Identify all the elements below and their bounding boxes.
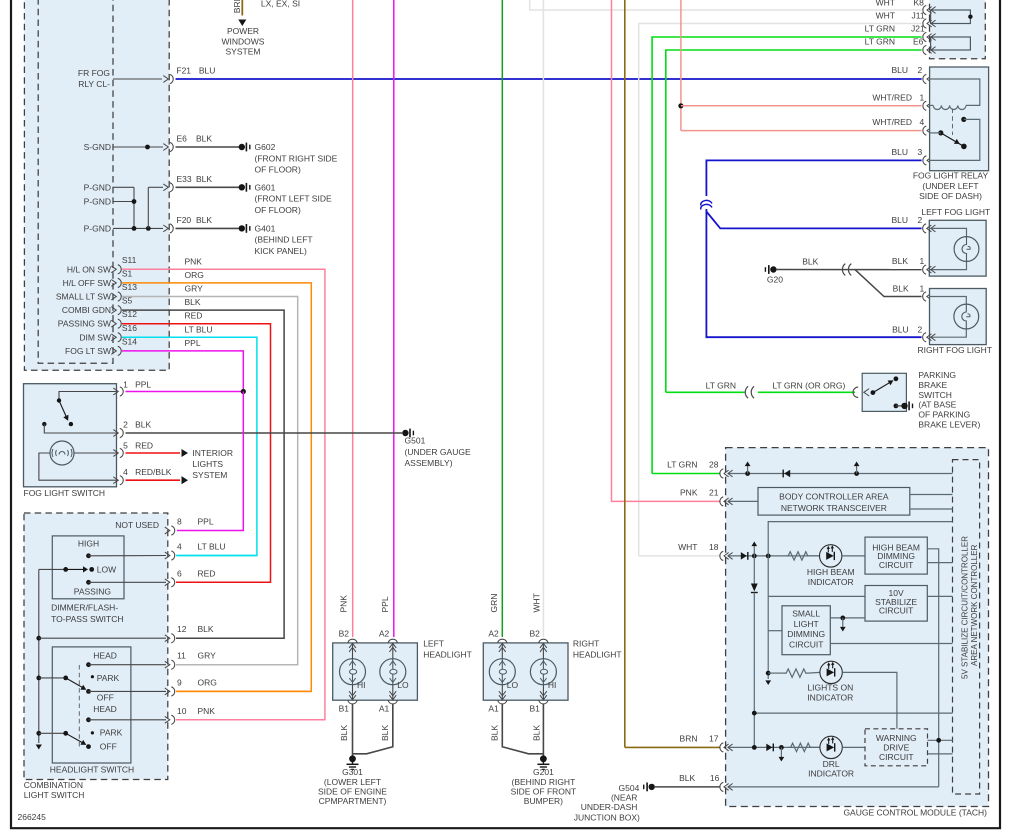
svg-text:DIM SW: DIM SW	[79, 332, 111, 342]
wire PASSING to pin 6	[89, 581, 167, 583]
svg-text:HEADLIGHT: HEADLIGHT	[573, 650, 622, 660]
junction dot bus lower section	[36, 731, 41, 736]
wire pin 1 PPL	[126, 391, 244, 393]
junction block dashed box	[930, 0, 986, 59]
wire BLK branch to right fog light	[855, 270, 922, 297]
svg-text:BLK: BLK	[893, 283, 909, 293]
svg-text:1: 1	[123, 380, 128, 390]
svg-text:RIGHT FOG LIGHT: RIGHT FOG LIGHT	[918, 345, 992, 355]
connector pin S14	[111, 346, 121, 355]
wire vertical P-GND bus 1	[133, 187, 135, 228]
resistor high beam indicator	[786, 552, 810, 560]
connector pin K8	[923, 5, 936, 14]
svg-text:RED/BLK: RED/BLK	[135, 467, 172, 477]
switch contact dot fog switch right	[69, 422, 73, 426]
svg-text:INDICATOR: INDICATOR	[808, 577, 854, 587]
wire BRN to power windows system	[241, 0, 243, 16]
svg-text:BUMPER): BUMPER)	[524, 796, 563, 806]
svg-text:18: 18	[709, 542, 719, 552]
page background fill of under-dash module	[24, 0, 169, 370]
svg-text:G401: G401	[255, 223, 276, 233]
wire BLU branch to left fog light	[706, 212, 921, 229]
svg-text:S1: S1	[122, 268, 133, 278]
wire LT GRN to pin 28	[652, 473, 720, 475]
svg-text:PNK: PNK	[198, 706, 216, 716]
svg-text:SIDE OF DASH): SIDE OF DASH)	[919, 191, 982, 201]
arrow down from small box output	[842, 618, 844, 627]
svg-text:PARKING: PARKING	[918, 370, 956, 380]
svg-text:AREA NETWORK CONTROLLER: AREA NETWORK CONTROLLER	[970, 544, 979, 666]
svg-text:OFF: OFF	[100, 742, 117, 752]
parking brake switch arm	[873, 381, 892, 393]
junction dot lights on row	[766, 671, 771, 676]
junction dot pin 17 second	[779, 745, 784, 750]
parking brake contact dot	[871, 390, 876, 395]
svg-text:LT GRN: LT GRN	[865, 24, 895, 34]
svg-text:CIRCUIT: CIRCUIT	[879, 560, 913, 570]
svg-text:S-GND: S-GND	[84, 142, 111, 152]
svg-text:LO: LO	[507, 680, 519, 690]
svg-text:B1: B1	[529, 704, 540, 714]
svg-text:LIGHTS: LIGHTS	[192, 459, 223, 469]
svg-text:GRN: GRN	[489, 594, 499, 613]
junction dot small box output	[840, 616, 845, 621]
wire FR FOG RLY CL- to connector F21	[113, 78, 162, 80]
svg-text:PASSING: PASSING	[74, 587, 111, 597]
arrow interior lights system lower	[182, 476, 189, 484]
dimmer flash-to-pass switch box	[52, 536, 124, 599]
svg-text:DRIVE: DRIVE	[883, 743, 909, 753]
svg-text:BRAKE: BRAKE	[918, 380, 947, 390]
wire BLK G504 to pin 16	[655, 786, 720, 788]
wire S-GND to connector E6	[113, 146, 163, 148]
wire pin 12	[39, 637, 166, 639]
svg-text:A2: A2	[488, 629, 499, 639]
svg-text:BLK: BLK	[196, 215, 212, 225]
wire warning output upper	[928, 739, 953, 741]
module wire pin 28 internal	[729, 473, 953, 475]
svg-text:4: 4	[177, 542, 182, 552]
svg-text:2: 2	[918, 215, 923, 225]
under-dash module outer dashed box	[24, 0, 169, 370]
svg-text:OF PARKING: OF PARKING	[918, 410, 970, 420]
wire pin 10	[89, 719, 167, 721]
wire HIGH to pin 4	[89, 555, 167, 557]
svg-text:J11: J11	[912, 11, 925, 21]
svg-text:G602: G602	[255, 142, 276, 152]
svg-text:BLK: BLK	[185, 297, 201, 307]
wire high beam output to controller	[927, 562, 952, 564]
connector right headlight pin A1 bottom	[498, 691, 507, 704]
connector comb pin 8	[165, 526, 175, 535]
svg-text:BLK: BLK	[679, 773, 695, 783]
wire left headlight B1 BLK to ground	[352, 704, 354, 756]
connector comb pin 4	[165, 551, 175, 560]
wire S11 PNK to combination switch	[122, 269, 325, 720]
wire small box output to controller	[830, 643, 952, 645]
svg-text:1: 1	[920, 92, 925, 102]
svg-text:(FRONT LEFT SIDE: (FRONT LEFT SIDE	[255, 194, 332, 204]
wire bus to upper arm pivot	[39, 677, 66, 679]
switch arm lower section	[66, 733, 85, 744]
junction dot bus row	[752, 711, 757, 716]
svg-text:21: 21	[709, 487, 719, 497]
svg-text:1: 1	[920, 283, 925, 293]
svg-text:B2: B2	[529, 629, 540, 639]
svg-text:WHT: WHT	[876, 0, 895, 8]
svg-text:LIGHT: LIGHT	[794, 619, 819, 629]
wire WHT K8 from top	[530, 0, 922, 10]
wire relay pin 4 stub	[930, 132, 941, 134]
connector parking brake switch	[853, 387, 858, 397]
wire BRN feed to pin 17 vertical	[624, 0, 626, 747]
svg-text:CIRCUIT: CIRCUIT	[879, 752, 913, 762]
svg-text:G301: G301	[342, 767, 363, 777]
junction block fill	[930, 0, 986, 59]
wire PNK to pin 21	[612, 0, 720, 501]
arrow up from pin 18 dot	[753, 546, 755, 556]
svg-text:LT BLU: LT BLU	[198, 542, 226, 552]
svg-text:BLK: BLK	[490, 725, 500, 741]
wire pin 6 RED	[177, 581, 271, 583]
combination light switch fill	[24, 513, 168, 780]
wire pin 4 LT BLU	[177, 555, 257, 557]
svg-text:LT GRN (OR ORG): LT GRN (OR ORG)	[772, 380, 845, 390]
connector fog switch pin 4	[113, 476, 123, 485]
svg-text:NOT USED: NOT USED	[115, 520, 159, 530]
svg-text:OF FLOOR): OF FLOOR)	[255, 165, 301, 175]
wire P-GND 1	[113, 186, 134, 188]
left fog internal wire	[929, 228, 966, 236]
wire lamp HI vertical	[352, 644, 354, 659]
connector comb pin 10	[165, 715, 175, 724]
wire right headlight B1 BLK to ground	[542, 704, 544, 756]
svg-text:BLU: BLU	[892, 324, 909, 334]
connector pin S1	[111, 278, 121, 287]
connector pin S5	[111, 306, 121, 315]
connector pin J21	[923, 32, 936, 41]
connector pin S12	[111, 319, 121, 328]
junction dot PPL net	[241, 389, 246, 394]
wire bus to lower arm pivot	[39, 732, 66, 734]
svg-text:PNK: PNK	[185, 256, 203, 266]
svg-text:P-GND: P-GND	[84, 197, 111, 207]
connector pin F20	[163, 224, 173, 233]
right fog light box	[930, 289, 987, 345]
connector comb pin 12	[165, 634, 175, 643]
ground G601	[239, 183, 250, 192]
svg-text:CIRCUIT: CIRCUIT	[879, 606, 913, 616]
lamp left fog light	[954, 237, 979, 262]
contact dot HIGH	[86, 553, 91, 558]
arrow down from pin 17 dot	[780, 747, 782, 757]
right fog internal wire	[930, 297, 967, 305]
diode right on pin 17 wire	[766, 744, 772, 751]
ground parking brake switch	[901, 402, 912, 411]
svg-text:PARK: PARK	[97, 673, 120, 683]
wire LT GRN to parking brake switch	[666, 391, 745, 393]
svg-text:2: 2	[918, 65, 923, 75]
svg-text:SMALL: SMALL	[792, 609, 820, 619]
dashed mechanical link headlight switch	[78, 665, 80, 747]
wire G20 BLK	[777, 269, 922, 271]
contact dot upper arm pivot	[63, 676, 68, 681]
svg-text:ORG: ORG	[185, 270, 204, 280]
junction dot bus pin 12	[36, 636, 41, 641]
module wire LED to high beam dimming box	[842, 555, 865, 557]
wire S16 LT BLU to combination switch	[122, 337, 257, 555]
fog light relay box	[930, 67, 989, 171]
svg-text:BLU: BLU	[891, 65, 908, 75]
svg-text:DIMMER/FLASH-: DIMMER/FLASH-	[51, 602, 118, 612]
svg-text:8: 8	[177, 517, 182, 527]
wire bus row to controller	[754, 712, 952, 714]
connector comb pin 6	[165, 578, 175, 587]
svg-text:PPL: PPL	[198, 517, 214, 527]
svg-text:5V STABILIZE CIRCUIT/CONTROLLE: 5V STABILIZE CIRCUIT/CONTROLLER	[960, 536, 969, 679]
headlight switch box	[52, 647, 131, 763]
wire body box output upper	[910, 494, 953, 496]
svg-text:10: 10	[177, 706, 187, 716]
svg-text:LT GRN: LT GRN	[667, 460, 697, 470]
svg-text:H/L OFF SW: H/L OFF SW	[63, 278, 111, 288]
svg-text:INDICATOR: INDICATOR	[807, 693, 853, 703]
warning drive circuit dashed box	[865, 729, 928, 766]
wire S12 RED to combination switch	[122, 324, 271, 583]
svg-text:BLU: BLU	[891, 147, 908, 157]
contact dot PARK upper	[91, 675, 94, 678]
svg-text:3: 3	[918, 147, 923, 157]
wire GRN feed to right headlight A2	[501, 0, 503, 637]
svg-text:BRAKE LEVER): BRAKE LEVER)	[918, 420, 980, 430]
contact dot OFF upper / pin 9	[86, 689, 91, 694]
small light dimming circuit box	[782, 606, 830, 655]
svg-text:BLU: BLU	[891, 215, 908, 225]
connector left headlight pin B2 top	[348, 639, 357, 652]
junction dot WHT/RED	[678, 103, 683, 108]
svg-text:INDICATOR: INDICATOR	[808, 768, 854, 778]
connector left headlight pin A1 bottom	[388, 691, 397, 704]
svg-text:NETWORK TRANSCEIVER: NETWORK TRANSCEIVER	[781, 503, 887, 513]
fog light switch box	[24, 384, 117, 487]
junction dot pin 17 first	[752, 745, 757, 750]
svg-text:SWITCH: SWITCH	[918, 390, 952, 400]
relay coil circuit wire	[930, 79, 980, 105]
svg-text:G504: G504	[619, 783, 640, 793]
svg-text:G20: G20	[767, 275, 783, 285]
svg-text:FOG LIGHT RELAY: FOG LIGHT RELAY	[913, 171, 989, 181]
connector pin E33	[163, 183, 173, 192]
svg-text:SYSTEM: SYSTEM	[192, 470, 227, 480]
svg-text:P-GND: P-GND	[84, 223, 111, 233]
wire lamp LO vertical	[501, 644, 503, 659]
relay movable arm	[941, 133, 962, 145]
wire right headlight A1 BLK	[502, 704, 543, 754]
svg-text:BODY CONTROLLER AREA: BODY CONTROLLER AREA	[779, 492, 889, 502]
junction dot bus upper section	[36, 676, 41, 681]
arrow to power windows system	[238, 20, 246, 27]
connector pin S16	[111, 333, 121, 342]
contact dot LOW	[89, 567, 94, 572]
arrow common bus end	[36, 745, 42, 750]
junction dot P-GND bus 2 at F20 row	[146, 226, 151, 231]
resistor DRL indicator	[788, 743, 812, 751]
lamp HI filament	[340, 659, 366, 685]
wire pin 4 RED/BLK to interior lights	[126, 479, 181, 481]
wire S5 BLK to combination switch	[122, 310, 284, 638]
module wire pin 21 internal	[729, 500, 758, 502]
wire BRN to pin 17	[625, 746, 720, 748]
svg-text:BLU: BLU	[199, 66, 216, 76]
wire to 10V stabilize input	[768, 595, 865, 597]
wire LT GRN E6	[666, 50, 922, 392]
junction dot bus bar	[968, 15, 972, 19]
svg-text:HEAD: HEAD	[93, 704, 117, 714]
svg-text:1: 1	[920, 256, 925, 266]
wire down from pin 18 dot	[753, 556, 755, 584]
svg-text:DIMMING: DIMMING	[787, 629, 825, 639]
wire dimmer common feed	[39, 568, 66, 570]
wire pin 2 BLK to ground G501	[126, 432, 403, 434]
parking brake switch box	[862, 373, 906, 411]
parking brake ground contact dot	[894, 404, 899, 409]
svg-text:CPMPARTMENT): CPMPARTMENT)	[319, 796, 387, 806]
svg-text:K8: K8	[914, 0, 925, 8]
wire WHT/RED 4	[681, 130, 922, 132]
wire S14 PPL to fog-switch net	[122, 351, 243, 392]
svg-text:COMBI GDN: COMBI GDN	[62, 305, 111, 315]
svg-text:LIGHTS ON: LIGHTS ON	[807, 683, 853, 693]
svg-text:S14: S14	[122, 336, 137, 346]
wire P-GND 3 to connector F20	[113, 227, 163, 229]
svg-text:4: 4	[123, 467, 128, 477]
wire pin 5 RED to interior lights	[126, 452, 181, 454]
connector fog switch pin 1	[113, 387, 123, 396]
inline connector parking brake wire	[745, 386, 754, 398]
ground G20	[765, 265, 776, 274]
svg-text:S5: S5	[122, 296, 133, 306]
svg-text:(UNDER LEFT: (UNDER LEFT	[922, 181, 978, 191]
LED high beam indicator	[820, 545, 842, 567]
LED DRL indicator	[820, 736, 842, 758]
wire WHT/RED 1	[681, 105, 922, 107]
svg-text:HEAD: HEAD	[93, 650, 117, 660]
diode down on pin 18 branch	[751, 584, 758, 592]
lamp fog switch illumination	[50, 441, 74, 465]
connector pin S13	[111, 292, 121, 301]
svg-text:BLK: BLK	[135, 420, 151, 430]
svg-text:S13: S13	[122, 282, 137, 292]
junction dot warning output	[936, 738, 941, 743]
connector left fog pin 1	[923, 265, 936, 274]
junction dot pin 28 right	[854, 471, 859, 476]
svg-text:F20: F20	[177, 215, 192, 225]
right headlight box	[483, 643, 568, 700]
svg-text:LEFT: LEFT	[423, 639, 444, 649]
wire pin 9	[89, 690, 167, 692]
svg-text:E33: E33	[177, 174, 192, 184]
svg-text:(NEAR: (NEAR	[611, 793, 637, 803]
wire pin 9 ORG	[177, 690, 311, 692]
svg-text:ASSEMBLY): ASSEMBLY)	[405, 458, 453, 468]
LED lights on indicator	[820, 661, 842, 683]
svg-text:WINDOWS: WINDOWS	[222, 37, 265, 47]
wire body box output lower	[910, 508, 953, 510]
svg-text:PASSING SW: PASSING SW	[58, 319, 111, 329]
wire switch common bus vertical	[38, 569, 40, 743]
svg-text:J21: J21	[911, 24, 925, 34]
svg-text:HEADLIGHT SWITCH: HEADLIGHT SWITCH	[50, 765, 134, 775]
gauge control module fill	[726, 448, 989, 807]
svg-text:PPL: PPL	[380, 596, 390, 612]
wire lights on LED to warning box	[842, 672, 897, 728]
svg-text:G601: G601	[255, 182, 276, 192]
splice dot on S-GND wire	[145, 145, 150, 150]
svg-text:JUNCTION BOX): JUNCTION BOX)	[574, 813, 640, 823]
wire WHT J11	[639, 24, 922, 556]
arrow up pin 28 right	[856, 466, 858, 474]
svg-text:LT BLU: LT BLU	[185, 324, 213, 334]
switch arm fog switch	[59, 401, 66, 417]
svg-text:LT GRN: LT GRN	[865, 37, 895, 47]
wire vertical P-GND bus 2	[147, 187, 149, 228]
connector pin E6	[923, 45, 936, 54]
wire break symbol on BLU	[701, 200, 712, 209]
svg-text:LEFT FOG LIGHT: LEFT FOG LIGHT	[921, 207, 990, 217]
wire S1 ORG to combination switch	[122, 283, 311, 692]
connector pin F21	[163, 74, 173, 83]
svg-text:CIRCUIT: CIRCUIT	[789, 639, 823, 649]
connector relay pin 1	[923, 101, 936, 110]
wire F20 BLK to ground G401	[176, 227, 241, 229]
diode arrow left on pin 28 wire	[784, 470, 790, 477]
junction dot P-GND 2	[132, 199, 137, 204]
lamp right fog light	[954, 304, 979, 329]
inline connector on G20 wire	[842, 264, 851, 276]
svg-text:S16: S16	[122, 323, 137, 333]
connector pin S11	[111, 265, 121, 274]
wire WHT feed to right headlight B2	[542, 0, 544, 637]
ground G501	[402, 429, 413, 438]
svg-text:6: 6	[177, 568, 182, 578]
arrow interior lights system upper	[182, 449, 189, 457]
resistor lights on indicator	[768, 672, 784, 674]
svg-text:266245: 266245	[18, 812, 47, 822]
junction dot pin 28 left	[745, 471, 750, 476]
junction dot pin 18 second	[766, 554, 771, 559]
svg-text:(FRONT RIGHT SIDE: (FRONT RIGHT SIDE	[255, 153, 338, 163]
svg-text:G201: G201	[533, 767, 554, 777]
svg-text:12: 12	[177, 624, 187, 634]
svg-text:11: 11	[177, 651, 186, 661]
wire to parking brake ground	[896, 405, 902, 407]
svg-text:2: 2	[918, 324, 923, 334]
connector module pin 16	[720, 782, 733, 791]
contact dot HEAD upper	[86, 662, 91, 667]
connector relay pin 3	[923, 156, 936, 165]
svg-text:BLK: BLK	[802, 256, 818, 266]
svg-text:OF FLOOR): OF FLOOR)	[255, 205, 301, 215]
svg-text:HI: HI	[357, 680, 366, 690]
svg-text:LOW: LOW	[97, 564, 116, 574]
arrow down dropper end	[765, 680, 771, 685]
svg-text:RIGHT: RIGHT	[573, 639, 599, 649]
lamp LO filament	[380, 659, 406, 685]
svg-text:LO: LO	[397, 680, 409, 690]
contact dot PARK lower	[91, 731, 94, 734]
svg-text:HIGH: HIGH	[78, 539, 99, 549]
connector left headlight pin A2 top	[388, 639, 397, 652]
